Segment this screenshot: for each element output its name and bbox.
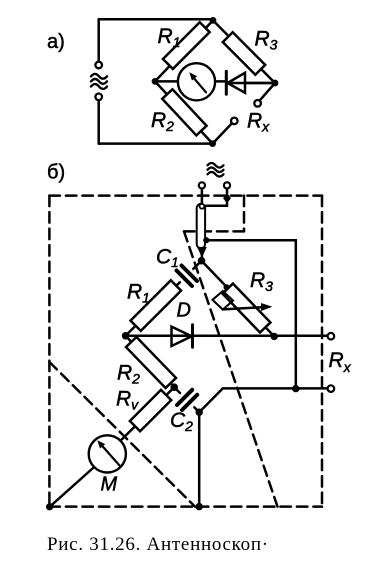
svg-text:Рис. 31.26. Антенноскоп·: Рис. 31.26. Антенноскоп· [47,534,269,555]
svg-text:R3: R3 [255,28,278,53]
svg-text:M: M [101,474,118,496]
svg-text:R2: R2 [151,109,174,134]
svg-text:C2: C2 [170,409,193,434]
svg-text:R1: R1 [158,25,181,50]
svg-text:D: D [177,300,191,322]
svg-text:а): а) [47,31,65,53]
svg-text:R1: R1 [127,281,150,306]
svg-text:Rx: Rx [247,110,270,135]
svg-text:R3: R3 [250,269,273,294]
svg-text:Rx: Rx [329,349,352,375]
svg-text:C1: C1 [156,246,179,271]
svg-text:R2: R2 [117,362,140,387]
svg-text:Rv: Rv [116,388,139,413]
svg-text:б): б) [47,162,65,184]
